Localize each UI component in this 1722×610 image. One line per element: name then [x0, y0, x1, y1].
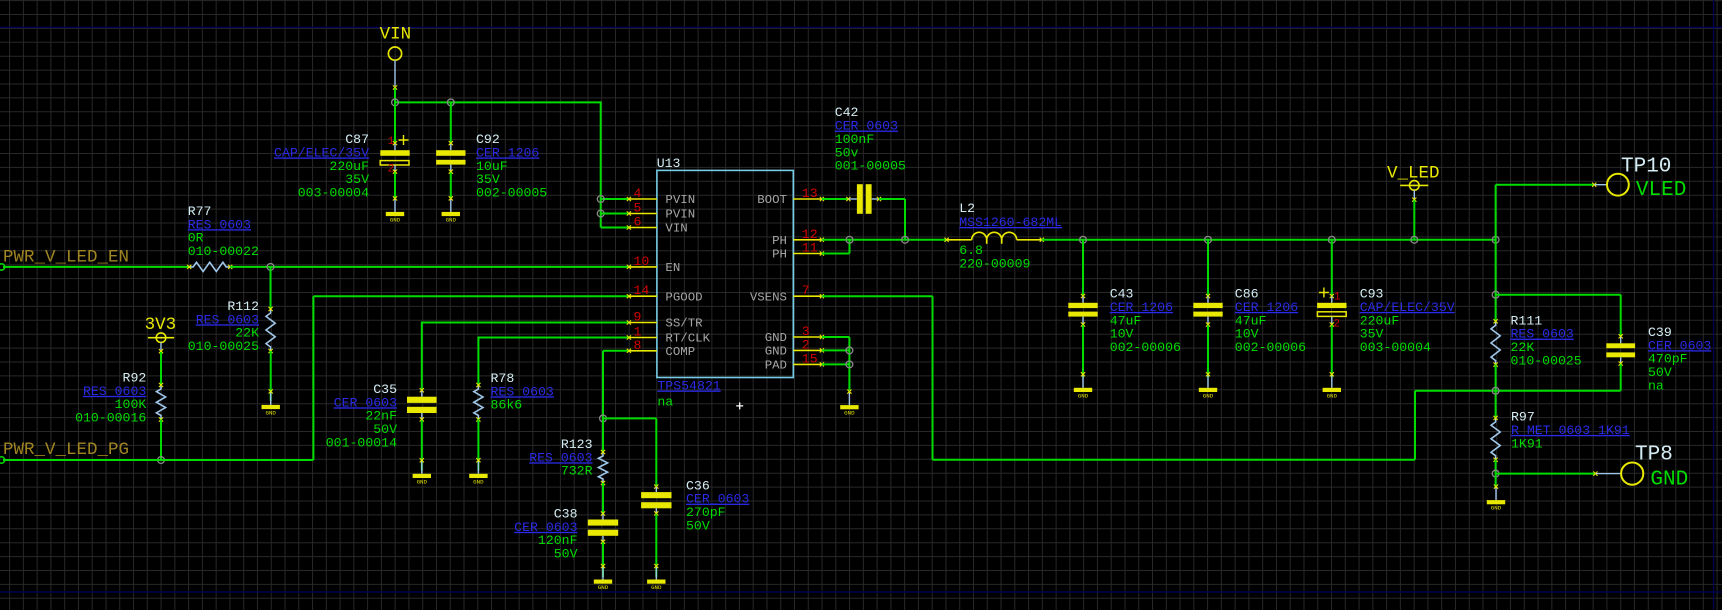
capacitor C35 — [407, 388, 437, 421]
svg-text:010-00025: 010-00025 — [1511, 353, 1582, 368]
node GND junction 15 — [846, 361, 853, 368]
label R111 — [1511, 313, 1582, 368]
wire C86 top — [1207, 240, 1209, 296]
wire PH12 — [822, 239, 947, 241]
wire COMP vertical — [602, 351, 604, 419]
wire SS/TR — [422, 322, 629, 324]
wire rail to U13 vertical — [600, 101, 602, 227]
label C38 — [514, 507, 577, 562]
svg-text:GND: GND — [1078, 392, 1089, 399]
svg-text:1K91: 1K91 — [1511, 436, 1543, 451]
sheet border right — [1713, 0, 1715, 610]
svg-text:GND: GND — [651, 584, 662, 591]
svg-text:EN: EN — [665, 261, 680, 275]
IC U13 body — [657, 170, 793, 377]
svg-text:002-00006: 002-00006 — [1110, 340, 1181, 355]
wire VIN drop — [394, 89, 396, 103]
svg-text:1: 1 — [1334, 292, 1341, 304]
svg-text:010-00022: 010-00022 — [188, 244, 259, 259]
svg-text:732R: 732R — [561, 464, 593, 479]
svg-text:BOOT: BOOT — [757, 193, 787, 207]
capacitor C87 branch wire — [394, 102, 396, 143]
U13 right pins — [750, 186, 824, 373]
svg-text:VSENS: VSENS — [750, 290, 787, 304]
label C43 — [1110, 287, 1181, 355]
svg-text:003-00004: 003-00004 — [1360, 340, 1431, 355]
testpoint TP8 — [1593, 444, 1688, 492]
svg-text:COMP: COMP — [665, 345, 695, 359]
svg-text:TP10: TP10 — [1621, 156, 1671, 179]
wire BOOT — [822, 198, 849, 200]
power symbol VIN — [380, 25, 412, 90]
wire VSENS — [822, 295, 933, 297]
ground C38 — [602, 567, 604, 580]
ground C35 — [421, 461, 423, 474]
node PG junction — [158, 457, 165, 464]
wire C35 bottom — [421, 420, 423, 470]
power symbol 3V3 — [145, 315, 177, 353]
testpoint TP10 — [1592, 156, 1686, 202]
wire to C36 horiz — [603, 417, 656, 419]
node R111 top junction — [1492, 291, 1499, 298]
capacitor C93 — [1317, 288, 1346, 331]
node C93 junction — [1328, 236, 1335, 243]
resistor R92 — [156, 385, 165, 420]
svg-text:5: 5 — [634, 201, 642, 216]
label R112 — [188, 299, 259, 354]
wire C86 bottom — [1207, 325, 1209, 377]
wire R97 bottom — [1495, 460, 1497, 474]
node PH rail end junction — [1492, 236, 1499, 243]
svg-text:PWR_V_LED_EN: PWR_V_LED_EN — [3, 247, 129, 267]
wire C38 bottom — [602, 543, 604, 578]
svg-text:2: 2 — [802, 337, 810, 352]
wire EN right — [230, 266, 629, 268]
node COMP junction — [600, 415, 607, 422]
wire loop top — [1496, 294, 1621, 296]
node V_LED junction — [1411, 236, 1418, 243]
svg-text:8: 8 — [634, 338, 642, 353]
label R92 — [75, 371, 146, 426]
svg-text:003-00004: 003-00004 — [298, 186, 369, 201]
ground C86 — [1207, 375, 1209, 388]
wire TP10 — [1496, 184, 1594, 186]
wire C42 right — [879, 198, 905, 200]
wire GND vertical — [848, 337, 850, 390]
svg-text:PVIN: PVIN — [665, 193, 695, 207]
svg-text:13: 13 — [802, 186, 818, 201]
wire R123 top — [602, 418, 604, 452]
svg-text:RT/CLK: RT/CLK — [665, 332, 710, 346]
svg-text:MSS1260-682ML: MSS1260-682ML — [959, 215, 1062, 230]
svg-text:PWR_V_LED_PG: PWR_V_LED_PG — [3, 440, 129, 460]
svg-text:2: 2 — [1333, 318, 1340, 330]
wire R92 bottom — [160, 420, 162, 461]
wire EN left — [3, 266, 189, 268]
label R97 — [1511, 410, 1630, 452]
capacitor C86 — [1193, 294, 1222, 327]
node C43 junction — [1080, 236, 1087, 243]
node R111 bottom junction — [1492, 387, 1499, 394]
ground C93 — [1331, 375, 1333, 388]
wire VSENS down — [932, 296, 934, 460]
wire V_LED drop — [1413, 200, 1415, 240]
svg-text:14: 14 — [634, 283, 650, 298]
inductor L2 — [945, 232, 1044, 243]
resistor R97 — [1491, 418, 1500, 460]
svg-text:GND: GND — [765, 345, 787, 359]
wire C93 top — [1331, 240, 1333, 296]
wire R78 bottom — [477, 420, 479, 471]
ground R112 — [270, 392, 272, 405]
resistor R77 — [189, 262, 230, 271]
label C39 — [1648, 325, 1711, 393]
svg-text:GND: GND — [265, 410, 276, 417]
ground C87 — [394, 199, 396, 212]
U13 left pins — [627, 186, 711, 359]
svg-text:6: 6 — [634, 215, 642, 230]
ground C43 — [1082, 375, 1084, 388]
resistor R123 — [598, 452, 607, 483]
wire PH rail — [1042, 239, 1496, 241]
capacitor C92 branch wire — [450, 102, 452, 143]
ground C36 — [655, 567, 657, 580]
wire R112 top — [270, 267, 272, 309]
svg-text:na: na — [1648, 378, 1664, 393]
svg-text:220-00009: 220-00009 — [959, 256, 1030, 271]
svg-text:002-00005: 002-00005 — [476, 186, 547, 201]
label C42 — [835, 105, 906, 173]
svg-text:VIN: VIN — [665, 222, 687, 236]
node TP8 junction — [1492, 470, 1499, 477]
svg-text:VIN: VIN — [380, 25, 412, 45]
wire PAD15 — [822, 363, 850, 365]
ground C92 — [450, 199, 452, 212]
label C36 — [686, 478, 749, 533]
net entry PG — [0, 457, 5, 463]
wire C87 to gnd — [394, 172, 396, 198]
wire C92 to gnd — [450, 172, 452, 198]
svg-text:002-00006: 002-00006 — [1235, 340, 1306, 355]
svg-text:na: na — [657, 395, 673, 410]
svg-text:3V3: 3V3 — [145, 315, 177, 335]
svg-text:PAD: PAD — [765, 359, 787, 373]
wire PGOOD — [313, 295, 629, 297]
svg-text:TP8: TP8 — [1635, 444, 1673, 467]
wire PG — [3, 459, 313, 461]
svg-text:86k6: 86k6 — [491, 398, 523, 413]
wire TP8 to gnd — [1495, 474, 1497, 488]
wire C93 bottom — [1331, 325, 1333, 377]
label R123 — [529, 437, 592, 479]
node EN junction — [267, 264, 274, 271]
wire R78 top — [477, 337, 479, 386]
svg-text:9: 9 — [634, 310, 642, 325]
wire VSENS bottom — [933, 459, 1416, 461]
svg-text:50V: 50V — [554, 547, 578, 562]
svg-text:15: 15 — [802, 351, 818, 366]
wire R112 bottom — [270, 351, 272, 401]
wire C43 bottom — [1082, 325, 1084, 377]
wire PH11 up — [849, 240, 851, 254]
wire C36 vertical — [655, 418, 657, 486]
svg-text:VLED: VLED — [1636, 179, 1686, 202]
sheet border bottom — [0, 591, 1722, 593]
svg-text:GND: GND — [1650, 469, 1688, 492]
resistor R78 — [474, 385, 483, 420]
node GND junction 2 — [846, 347, 853, 354]
svg-text:GND: GND — [473, 478, 484, 485]
svg-text:GND: GND — [598, 584, 609, 591]
svg-text:GND: GND — [417, 478, 428, 485]
wire PG vertical — [312, 296, 314, 460]
wire RT/CLK — [478, 337, 629, 339]
svg-text:GND: GND — [844, 410, 855, 417]
svg-text:GND: GND — [765, 331, 787, 345]
wire to pin5 — [601, 213, 629, 215]
wire TP8 — [1496, 473, 1595, 475]
ground U13 — [848, 392, 850, 405]
capacitor C36 — [641, 485, 671, 516]
capacitor C42 — [846, 184, 881, 214]
sheet border top — [0, 26, 1722, 28]
svg-text:001-00005: 001-00005 — [835, 159, 906, 174]
svg-text:PGOOD: PGOOD — [665, 290, 702, 304]
node VIN rail junction B — [447, 99, 454, 106]
capacitor C87 — [380, 135, 409, 176]
wire to pin4 — [601, 198, 629, 200]
svg-text:010-00025: 010-00025 — [188, 339, 259, 354]
node PH junction C42 — [902, 236, 909, 243]
resistor R111 — [1491, 321, 1500, 364]
wire C36 bottom — [655, 514, 657, 577]
ground R78 — [477, 461, 479, 474]
label C92 — [476, 132, 547, 200]
wire VIN rail — [395, 101, 601, 103]
cursor cross — [736, 402, 743, 409]
svg-text:GND: GND — [1203, 392, 1214, 399]
svg-text:010-00016: 010-00016 — [75, 411, 146, 426]
label C35 — [326, 382, 397, 450]
svg-text:PH: PH — [772, 248, 787, 262]
capacitor C39 — [1606, 295, 1635, 391]
svg-text:10: 10 — [634, 254, 650, 269]
resistor R112 — [266, 309, 275, 351]
wire C35 top — [421, 322, 423, 391]
capacitor C38 — [588, 511, 618, 544]
svg-text:001-00014: 001-00014 — [326, 435, 397, 450]
label R77 — [188, 204, 259, 259]
node C86 junction — [1205, 236, 1212, 243]
wire TP10 vertical — [1495, 185, 1497, 322]
svg-text:GND: GND — [1327, 392, 1338, 399]
wire COMP — [603, 350, 629, 352]
label C87 — [274, 132, 369, 200]
capacitor C43 — [1068, 294, 1097, 327]
net entry EN — [0, 264, 5, 270]
node VIN rail junction A — [392, 99, 399, 106]
label C93 — [1360, 287, 1455, 355]
power symbol V_LED — [1387, 164, 1440, 202]
wire VSENS up — [1414, 391, 1416, 460]
svg-text:PVIN: PVIN — [665, 208, 695, 222]
wire to pin6 — [601, 227, 629, 229]
svg-text:2: 2 — [388, 164, 395, 176]
svg-text:GND: GND — [1491, 505, 1502, 512]
svg-text:4: 4 — [634, 186, 642, 201]
wire VSENS to R111 — [1415, 390, 1621, 392]
svg-text:1: 1 — [388, 136, 395, 148]
wire GND3 — [822, 336, 850, 338]
label C86 — [1235, 287, 1306, 355]
svg-text:PH: PH — [772, 234, 787, 248]
svg-text:50V: 50V — [686, 518, 710, 533]
node PVIN junction 4 — [597, 196, 604, 203]
capacitor C92 — [436, 150, 465, 174]
label R78 — [491, 371, 554, 413]
svg-text:7: 7 — [802, 283, 810, 298]
svg-text:U13: U13 — [657, 156, 681, 171]
svg-text:TPS54821: TPS54821 — [657, 379, 720, 394]
svg-text:GND: GND — [390, 217, 401, 224]
wire PH11 — [822, 253, 850, 255]
svg-text:11: 11 — [802, 241, 818, 256]
node PVIN junction 5 — [597, 210, 604, 217]
wire C42 down — [904, 199, 906, 240]
wire R123 to C38 — [602, 483, 604, 513]
wire R111 bottom — [1495, 365, 1497, 418]
wire C43 top — [1082, 240, 1084, 296]
wire 3V3 to R92 — [160, 352, 162, 385]
wire GND2 — [822, 349, 850, 351]
ground R97 — [1495, 487, 1497, 500]
node PH junction 1 — [846, 236, 853, 243]
svg-text:SS/TR: SS/TR — [665, 317, 703, 331]
svg-text:L2: L2 — [959, 201, 975, 216]
svg-text:GND: GND — [446, 217, 457, 224]
